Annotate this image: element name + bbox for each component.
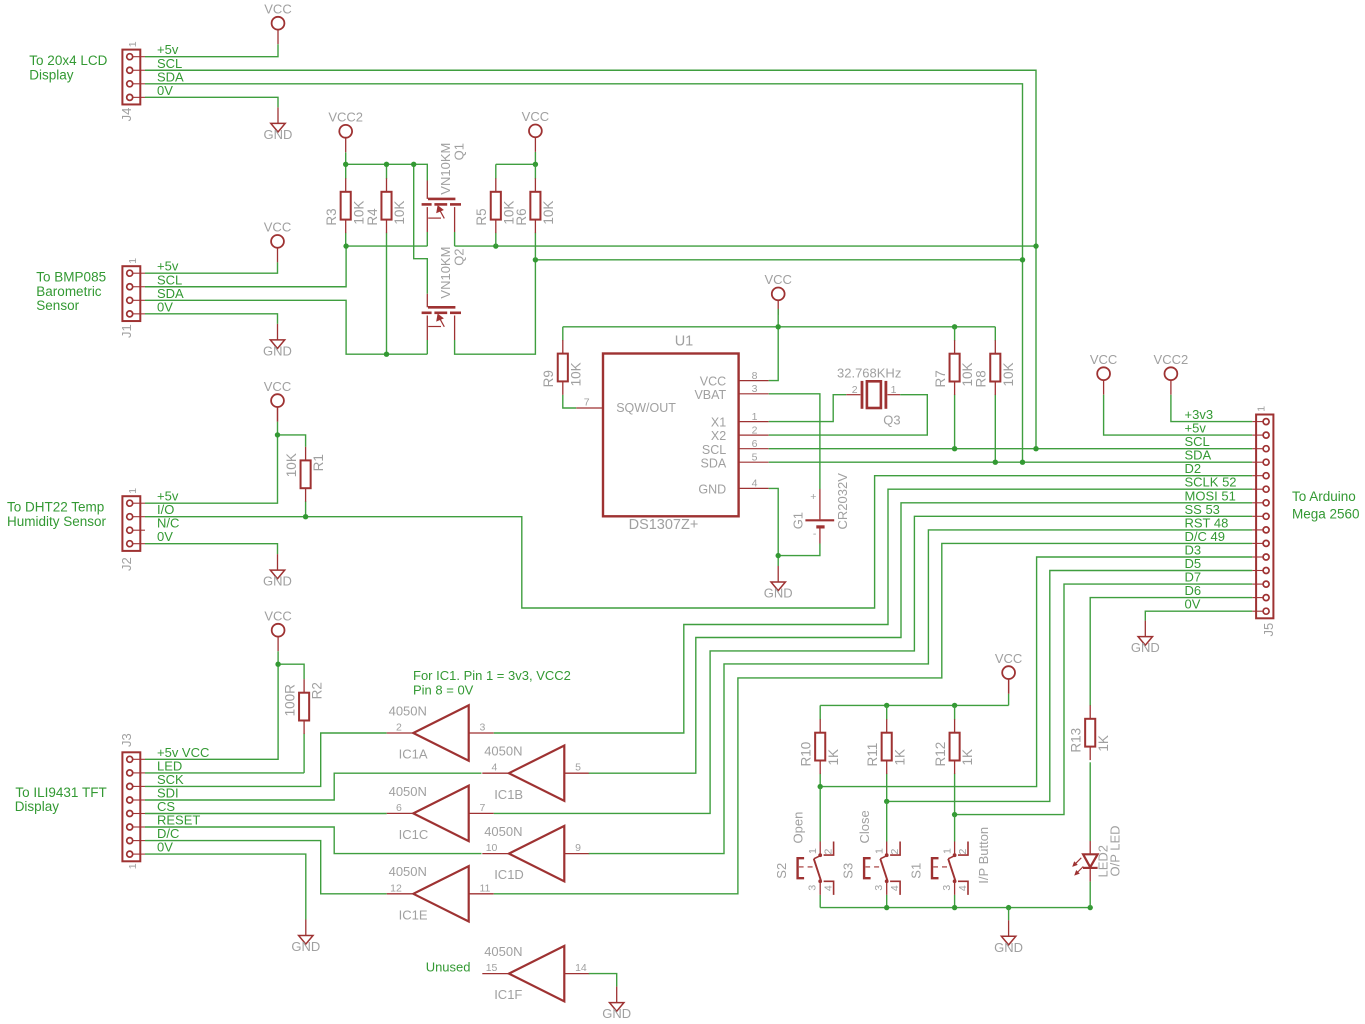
wire branch to R2 — [278, 664, 304, 679]
junction GND junction — [776, 553, 781, 558]
svg-text:6: 6 — [396, 802, 402, 814]
wire J3 SDI to IC1B out — [145, 773, 482, 800]
resistor R9 10K (SQW pull-up) — [541, 327, 583, 395]
svg-text:IC1A: IC1A — [399, 747, 428, 762]
wire J5 D3 to S2 — [820, 557, 1252, 787]
svg-text:G1: G1 — [791, 512, 806, 529]
label To Arduino Mega 2560 — [1292, 489, 1360, 522]
svg-text:32.768KHz: 32.768KHz — [837, 365, 901, 380]
svg-text:CR2032V: CR2032V — [835, 473, 850, 530]
connector J5 (Arduino Mega) — [1252, 406, 1276, 637]
svg-text:10K: 10K — [1001, 362, 1016, 386]
IC U1 DS1307Z+ body — [576, 334, 769, 533]
svg-text:2: 2 — [752, 424, 758, 436]
connector J4 — [119, 41, 145, 121]
svg-text:2: 2 — [957, 849, 969, 855]
svg-text:5: 5 — [575, 762, 581, 774]
junction R6 bottom — [533, 257, 538, 262]
svg-text:S1: S1 — [909, 863, 924, 879]
svg-text:0V: 0V — [157, 529, 173, 544]
svg-text:VCC: VCC — [1090, 352, 1117, 367]
wire IC1F in to GND — [589, 974, 617, 987]
wire S1 to rail — [954, 895, 956, 908]
svg-text:2: 2 — [889, 849, 901, 855]
junction R3/J1 SCL — [343, 243, 348, 248]
svg-text:O/P LED: O/P LED — [1108, 825, 1123, 876]
junction R4 top — [384, 162, 389, 167]
wire SDA-5v rail — [535, 259, 1022, 261]
svg-text:Sensor: Sensor — [36, 298, 79, 313]
svg-text:J1: J1 — [119, 324, 134, 338]
wire VCC2 rail to Q2 gate — [414, 164, 428, 293]
svg-text:Q3: Q3 — [883, 413, 900, 428]
Q1 drain — [454, 207, 456, 232]
wire J5 D5 to S3 — [887, 571, 1253, 802]
junction R8 bottom — [993, 460, 998, 465]
switch S1 (I/P Button pushbutton) — [909, 827, 992, 895]
resistor R11 1K (S3 pull-up) — [865, 705, 907, 801]
svg-text:DS1307Z+: DS1307Z+ — [629, 517, 699, 533]
power symbol VCC (J4 +5v) — [264, 2, 291, 45]
svg-text:GND: GND — [764, 586, 793, 601]
svg-text:4050N: 4050N — [484, 744, 522, 759]
ground symbol (J3 0V) — [291, 920, 320, 955]
svg-text:S2: S2 — [774, 863, 789, 879]
svg-text:4050N: 4050N — [484, 824, 522, 839]
wire VCC riser — [534, 152, 536, 164]
switch S3 (Close pushbutton) — [841, 810, 902, 895]
power symbol VCC (J2 +5v) — [264, 379, 291, 422]
label To 20x4 LCD Display — [29, 53, 107, 83]
svg-text:R8: R8 — [974, 370, 989, 387]
connector J2 — [119, 488, 145, 571]
svg-text:SCL: SCL — [702, 443, 726, 457]
wire J1 SCL riser — [145, 246, 346, 287]
junction R11 top — [884, 703, 889, 708]
resistor R8 10K (SDA pull-up) — [974, 327, 1016, 462]
svg-text:X2: X2 — [711, 429, 726, 443]
svg-text:GND: GND — [264, 127, 293, 142]
svg-text:12: 12 — [390, 882, 402, 894]
svg-text:Close: Close — [857, 810, 872, 843]
junction D3/R10/S2 — [818, 784, 823, 789]
wire R13 to LED2 — [1089, 762, 1091, 841]
wire U1 X2 to crystal pin1 — [769, 395, 928, 435]
svg-text:1K: 1K — [892, 749, 907, 766]
op-amp buffer IC1B (4050N) — [482, 744, 589, 802]
op-amp buffer IC1E (4050N) — [387, 864, 494, 922]
svg-text:R5: R5 — [474, 208, 489, 225]
svg-text:IC1E: IC1E — [399, 907, 428, 922]
label To DHT22 Temp Humidity Sensor — [7, 500, 107, 529]
svg-text:VCC2: VCC2 — [328, 110, 363, 125]
wire J4 SDA to J5/U1 SDA — [145, 84, 1023, 462]
junction SCL riser — [1033, 243, 1038, 248]
wire R9 bottom to pin7 — [563, 395, 576, 408]
svg-text:GND: GND — [1131, 640, 1160, 655]
svg-text:9: 9 — [575, 842, 581, 854]
svg-text:3: 3 — [480, 722, 486, 734]
wire J3 RESET to IC1D out — [145, 827, 482, 854]
wire VCC2 rail to Q1 gate — [346, 164, 428, 180]
wire J4 +5v to VCC — [145, 44, 278, 57]
svg-text:0V: 0V — [157, 83, 173, 98]
junction SDA riser T — [1020, 460, 1025, 465]
svg-text:4: 4 — [492, 762, 498, 774]
wire SCL-3v3 rail — [346, 245, 427, 247]
op-amp buffer IC1D (4050N) — [482, 824, 589, 882]
op-amp buffer IC1F (4050N) — [482, 944, 589, 1002]
wire IC1E in to J5 D/C 49 — [494, 543, 1253, 893]
svg-text:Display: Display — [29, 67, 74, 82]
svg-text:4050N: 4050N — [484, 944, 522, 959]
power symbol VCC2 (gate pull-up rail) — [328, 110, 363, 153]
svg-text:1: 1 — [941, 848, 953, 854]
svg-text:1: 1 — [752, 411, 758, 423]
svg-text:To Arduino: To Arduino — [1292, 489, 1356, 504]
ground symbol (J1 0V) — [263, 324, 292, 359]
wire J5 D7 to S1 — [955, 584, 1253, 815]
svg-text:To 20x4 LCD: To 20x4 LCD — [29, 53, 107, 68]
svg-text:6: 6 — [752, 438, 758, 450]
resistor R13 1K (LED series) — [1069, 705, 1111, 760]
junction LED gnd — [1088, 905, 1093, 910]
battery G1 CR2032V — [791, 473, 850, 544]
svg-text:10K: 10K — [541, 201, 556, 225]
svg-text:Q1: Q1 — [452, 143, 467, 160]
junction R6 top — [533, 162, 538, 167]
svg-text:VCC: VCC — [264, 609, 291, 624]
wire Q1 source wire — [426, 232, 428, 246]
svg-text:VCC: VCC — [700, 375, 726, 389]
junction S1 gnd — [952, 905, 957, 910]
svg-text:R13: R13 — [1069, 728, 1084, 753]
resistor R10 1K (S2 pull-up) — [799, 705, 841, 786]
svg-text:2: 2 — [396, 722, 402, 734]
wire J3 SCK to IC1A out — [145, 733, 387, 786]
svg-text:R11: R11 — [865, 743, 880, 767]
svg-text:1: 1 — [1256, 406, 1268, 412]
svg-text:VCC: VCC — [522, 109, 549, 124]
svg-text:Display: Display — [15, 799, 60, 814]
svg-text:2: 2 — [852, 384, 858, 396]
wire Q1 drain wire — [454, 232, 456, 246]
wire S2 to rail — [819, 895, 821, 908]
power symbol VCC2 (J5 +3v3) — [1154, 352, 1189, 395]
junction gnd riser — [1006, 905, 1011, 910]
svg-text:0V: 0V — [1185, 597, 1201, 612]
resistor R12 1K (S1 pull-up) — [933, 705, 975, 814]
wire J5 D6 to R13 — [1090, 598, 1252, 706]
wire VCC to J5 +5v — [1104, 395, 1253, 435]
svg-text:SQW/OUT: SQW/OUT — [616, 401, 676, 415]
wire R12 to S1 — [954, 815, 956, 842]
transistor Q2 VN10KM — [422, 247, 467, 327]
wire battery - to GND net — [778, 544, 820, 556]
svg-text:4: 4 — [889, 885, 901, 891]
svg-text:VCC2: VCC2 — [1154, 352, 1189, 367]
svg-text:8: 8 — [752, 370, 758, 382]
svg-text:VCC: VCC — [264, 220, 291, 235]
wire U1 SDA to J5 — [769, 461, 1253, 463]
svg-text:Barometric: Barometric — [36, 284, 102, 299]
svg-text:R4: R4 — [365, 208, 380, 226]
svg-text:15: 15 — [486, 962, 498, 974]
svg-text:IC1C: IC1C — [399, 827, 429, 842]
ground symbol (J4 0V) — [264, 107, 293, 141]
svg-text:Unused: Unused — [426, 959, 471, 974]
svg-text:VCC: VCC — [264, 379, 291, 394]
svg-text:1: 1 — [127, 488, 139, 494]
resistor R1 10K (DHT pull-up) — [284, 447, 326, 517]
svg-text:3: 3 — [752, 383, 758, 395]
junction D5/R11/S3 — [884, 799, 889, 804]
svg-text:1: 1 — [127, 863, 139, 869]
svg-text:R7: R7 — [933, 370, 948, 387]
svg-text:X1: X1 — [711, 416, 726, 430]
svg-text:IC1D: IC1D — [494, 867, 524, 882]
wire RTC VCC rail — [563, 326, 996, 328]
svg-text:10K: 10K — [568, 362, 583, 386]
svg-text:4050N: 4050N — [389, 864, 427, 879]
junction R1 bottom — [303, 514, 308, 519]
wire Q2 source wire — [426, 340, 428, 354]
wire J2 I/O to J5 D2 — [145, 476, 1252, 608]
svg-text:1: 1 — [891, 384, 897, 396]
wire R10 to S2 — [819, 787, 821, 842]
svg-text:4: 4 — [957, 885, 969, 891]
svg-text:4: 4 — [823, 885, 835, 891]
svg-text:7: 7 — [480, 802, 486, 814]
note text For IC1 supply pins — [413, 668, 571, 697]
ground symbol (IC1F input) — [602, 987, 631, 1022]
svg-text:GND: GND — [698, 483, 726, 497]
transistor Q1 VN10KM — [422, 143, 467, 219]
svg-text:For IC1. Pin 1 = 3v3, VCC2: For IC1. Pin 1 = 3v3, VCC2 — [413, 668, 571, 683]
wire J3 D/C to IC1E out — [145, 841, 387, 894]
wire U1 SCL to J5 — [769, 448, 1253, 450]
wire branch to R1 — [278, 435, 306, 447]
wire U1 pin4 GND — [769, 488, 779, 566]
svg-text:VCC: VCC — [264, 2, 291, 17]
op-amp buffer IC1A (4050N) — [387, 703, 494, 761]
junction D7/R12/S1 — [952, 812, 957, 817]
wire GND riser — [1008, 908, 1010, 921]
crystal Q3 32.768KHz — [837, 365, 901, 427]
svg-text:R10: R10 — [799, 742, 814, 767]
ground symbol (U1/G1) — [764, 566, 793, 601]
svg-text:Humidity Sensor: Humidity Sensor — [7, 514, 107, 529]
svg-text:R2: R2 — [310, 682, 325, 699]
power symbol VCC (J3 5v) — [264, 609, 291, 652]
junction Q2 gate riser — [411, 162, 416, 167]
svg-text:100R: 100R — [283, 684, 298, 717]
wire R5/R6 top rail — [496, 163, 536, 165]
junction SCL riser T — [1033, 446, 1038, 451]
svg-text:4050N: 4050N — [389, 784, 427, 799]
wire switch VCC rail — [820, 704, 1008, 706]
junction R4 bottom — [384, 352, 389, 357]
svg-text:J3: J3 — [119, 733, 134, 747]
svg-text:To BMP085: To BMP085 — [36, 270, 106, 285]
svg-text:+: + — [810, 491, 816, 503]
svg-text:Open: Open — [791, 812, 806, 844]
svg-text:VBAT: VBAT — [694, 388, 726, 402]
svg-text:VCC: VCC — [995, 651, 1022, 666]
ground symbol (J5 0V) — [1131, 621, 1160, 656]
wire J3 0V to GND — [145, 854, 306, 919]
wire Q2 drain to SDA-5v — [455, 260, 536, 354]
connector J3 — [119, 733, 145, 869]
wire VCC2 riser — [345, 152, 347, 164]
wire J1 +5v to VCC — [145, 262, 278, 273]
svg-text:14: 14 — [575, 962, 587, 974]
junction R7 bottom — [952, 446, 957, 451]
resistor R7 10K (SCL pull-up) — [933, 327, 975, 449]
wire switch GND rail — [820, 907, 1090, 909]
svg-text:R6: R6 — [514, 208, 529, 225]
wire U1 X1 to crystal pin2 — [769, 395, 847, 422]
junction R12 top — [952, 703, 957, 708]
svg-text:1K: 1K — [826, 749, 841, 766]
svg-text:1K: 1K — [1096, 735, 1111, 752]
resistor R6 10K (SDA pull-up 5v) — [514, 164, 556, 259]
wire IC1D in to J5 RST 48 — [589, 530, 1253, 854]
svg-text:IC1B: IC1B — [494, 787, 523, 802]
LED LED2 O/P LED — [1072, 825, 1122, 881]
svg-text:0V: 0V — [157, 299, 173, 314]
svg-text:VCC: VCC — [764, 272, 791, 287]
label To ILI9431 TFT Display — [15, 785, 107, 814]
svg-text:10: 10 — [486, 842, 498, 854]
svg-text:3: 3 — [941, 885, 953, 891]
svg-text:Pin 8 = 0V: Pin 8 = 0V — [413, 682, 474, 697]
svg-text:1: 1 — [807, 848, 819, 854]
svg-text:Mega 2560: Mega 2560 — [1292, 507, 1360, 522]
svg-text:SDA: SDA — [700, 456, 726, 470]
net labels at J5 — [1185, 407, 1237, 612]
label To BMP085 Barometric Sensor — [36, 270, 106, 314]
power symbol VCC (switch pull-up rail) — [995, 651, 1022, 694]
wire R11 to S3 — [886, 801, 888, 841]
svg-text:7: 7 — [584, 397, 590, 409]
wire U1 VBAT to battery + — [769, 394, 820, 489]
svg-text:GND: GND — [291, 939, 320, 954]
wire J3 +5v VCC — [145, 651, 278, 759]
wire J5 0V to GND — [1145, 611, 1252, 620]
junction R1 branch — [275, 432, 280, 437]
wire LED2 cathode to rail — [1089, 882, 1091, 908]
resistor R2 100R (LED series) — [283, 679, 325, 773]
svg-text:R12: R12 — [933, 742, 948, 767]
Q2 drain — [454, 316, 456, 341]
svg-text:GND: GND — [263, 343, 292, 358]
ground symbol (switch rail) — [994, 920, 1023, 955]
svg-text:GND: GND — [994, 940, 1023, 955]
junction R5 bottom — [493, 243, 498, 248]
svg-text:3: 3 — [806, 885, 818, 891]
wire J1 SDA / SDA-3v3 rail — [145, 300, 427, 354]
power symbol VCC (J5 +5v) — [1090, 352, 1117, 395]
wire VCC2 to J5 +3v3 — [1171, 395, 1252, 422]
wire J2 +5v to VCC — [145, 422, 278, 504]
svg-text:1: 1 — [127, 41, 139, 47]
junction R7 top — [952, 324, 957, 329]
wire J4 SCL to J5/U1 SCL — [145, 70, 1036, 448]
wire J1 0V to GND — [145, 314, 278, 324]
svg-text:S3: S3 — [841, 863, 856, 879]
wire J2 0V to GND — [145, 544, 278, 554]
svg-text:To DHT22 Temp: To DHT22 Temp — [7, 500, 104, 515]
connector J1 — [119, 258, 145, 338]
svg-text:1K: 1K — [960, 749, 975, 766]
wire J3 CS to IC1C out — [145, 813, 387, 815]
svg-text:I/P Button: I/P Button — [976, 827, 991, 884]
svg-text:5: 5 — [752, 451, 758, 463]
svg-text:1: 1 — [127, 258, 139, 264]
svg-text:U1: U1 — [675, 334, 694, 350]
svg-text:J2: J2 — [119, 557, 134, 571]
svg-text:4: 4 — [752, 478, 758, 490]
svg-text:IC1F: IC1F — [494, 987, 522, 1002]
svg-text:4050N: 4050N — [389, 703, 427, 718]
junction R2 branch — [275, 662, 280, 667]
Q2 source — [426, 316, 428, 341]
power symbol VCC (U1/RTC rail) — [764, 272, 791, 315]
wire SCL-5v rail — [455, 245, 1036, 247]
svg-text:R1: R1 — [311, 454, 326, 471]
wire J3 LED net — [145, 772, 304, 774]
svg-text:3: 3 — [873, 885, 885, 891]
wire S3 to rail — [886, 895, 888, 908]
svg-text:Q2: Q2 — [452, 248, 467, 265]
ground symbol (J2 0V) — [263, 554, 292, 589]
svg-text:GND: GND — [263, 574, 292, 589]
wire J4 0V to GND — [145, 97, 278, 107]
svg-text:R3: R3 — [324, 208, 339, 225]
svg-text:-: - — [813, 528, 817, 540]
resistor R5 10K (SCL pull-up 5v) — [474, 164, 516, 246]
Q1 source to SCL-3v3 rail — [426, 207, 428, 232]
junction VCC2/R3 — [343, 162, 348, 167]
svg-text:10K: 10K — [284, 453, 299, 477]
svg-text:R9: R9 — [541, 370, 556, 387]
junction S3 gnd — [884, 905, 889, 910]
svg-text:GND: GND — [602, 1006, 631, 1021]
svg-text:J4: J4 — [119, 108, 134, 122]
svg-text:1: 1 — [873, 848, 885, 854]
resistor R4 10K (SDA pull-up 3v3) — [365, 164, 407, 354]
svg-text:0V: 0V — [157, 840, 173, 855]
wire U1 pin8 VCC riser — [769, 309, 779, 381]
junction SDA riser — [1020, 257, 1025, 262]
wire IC1C in to J5 SS 53 — [494, 516, 1253, 813]
svg-text:2: 2 — [823, 849, 835, 855]
junction VCC riser — [776, 324, 781, 329]
svg-text:J5: J5 — [1261, 623, 1276, 637]
op-amp buffer IC1C (4050N) — [387, 784, 494, 842]
wire IC1B in to J5 MOSI 51 — [589, 503, 1253, 773]
resistor R3 10K (SCL pull-up 3v3) — [324, 164, 366, 246]
switch S2 (Open pushbutton) — [774, 812, 835, 895]
wire VCC riser — [1008, 694, 1010, 706]
svg-text:11: 11 — [480, 882, 491, 894]
power symbol VCC (I2C 5v pull-ups) — [522, 109, 549, 152]
svg-text:To ILI9431 TFT: To ILI9431 TFT — [15, 785, 106, 800]
wire IC1A in to J5 SCLK 52 — [494, 489, 1253, 733]
power symbol VCC (J1 +5v) — [264, 220, 291, 263]
svg-text:10K: 10K — [392, 201, 407, 225]
